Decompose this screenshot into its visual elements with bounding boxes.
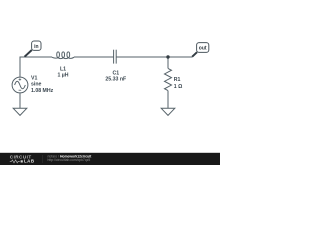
- svg-text:out: out: [199, 46, 207, 52]
- svg-text:sine: sine: [31, 82, 41, 88]
- svg-text:L1: L1: [60, 66, 66, 72]
- svg-text:LAB: LAB: [24, 159, 35, 164]
- svg-text:1 Ω: 1 Ω: [174, 84, 183, 90]
- svg-text:1 µH: 1 µH: [57, 73, 68, 79]
- svg-text:in: in: [34, 44, 38, 50]
- svg-text:R1: R1: [174, 77, 181, 83]
- svg-text:C1: C1: [112, 70, 119, 76]
- svg-text:25.33 nF: 25.33 nF: [105, 77, 126, 83]
- svg-text:http://circuitlab.com/cpk7qz5: http://circuitlab.com/cpk7qz5: [48, 158, 91, 162]
- svg-text:V1: V1: [31, 75, 37, 81]
- svg-text:1.08 MHz: 1.08 MHz: [31, 88, 54, 94]
